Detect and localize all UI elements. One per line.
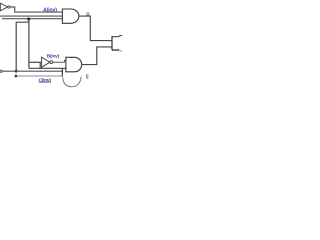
svg-text:B(inv): B(inv): [47, 53, 60, 58]
svg-text:D: D: [86, 11, 89, 16]
svg-text:C(inv): C(inv): [39, 77, 52, 83]
svg-text:E: E: [86, 75, 89, 81]
svg-text:A(inv): A(inv): [43, 8, 57, 14]
